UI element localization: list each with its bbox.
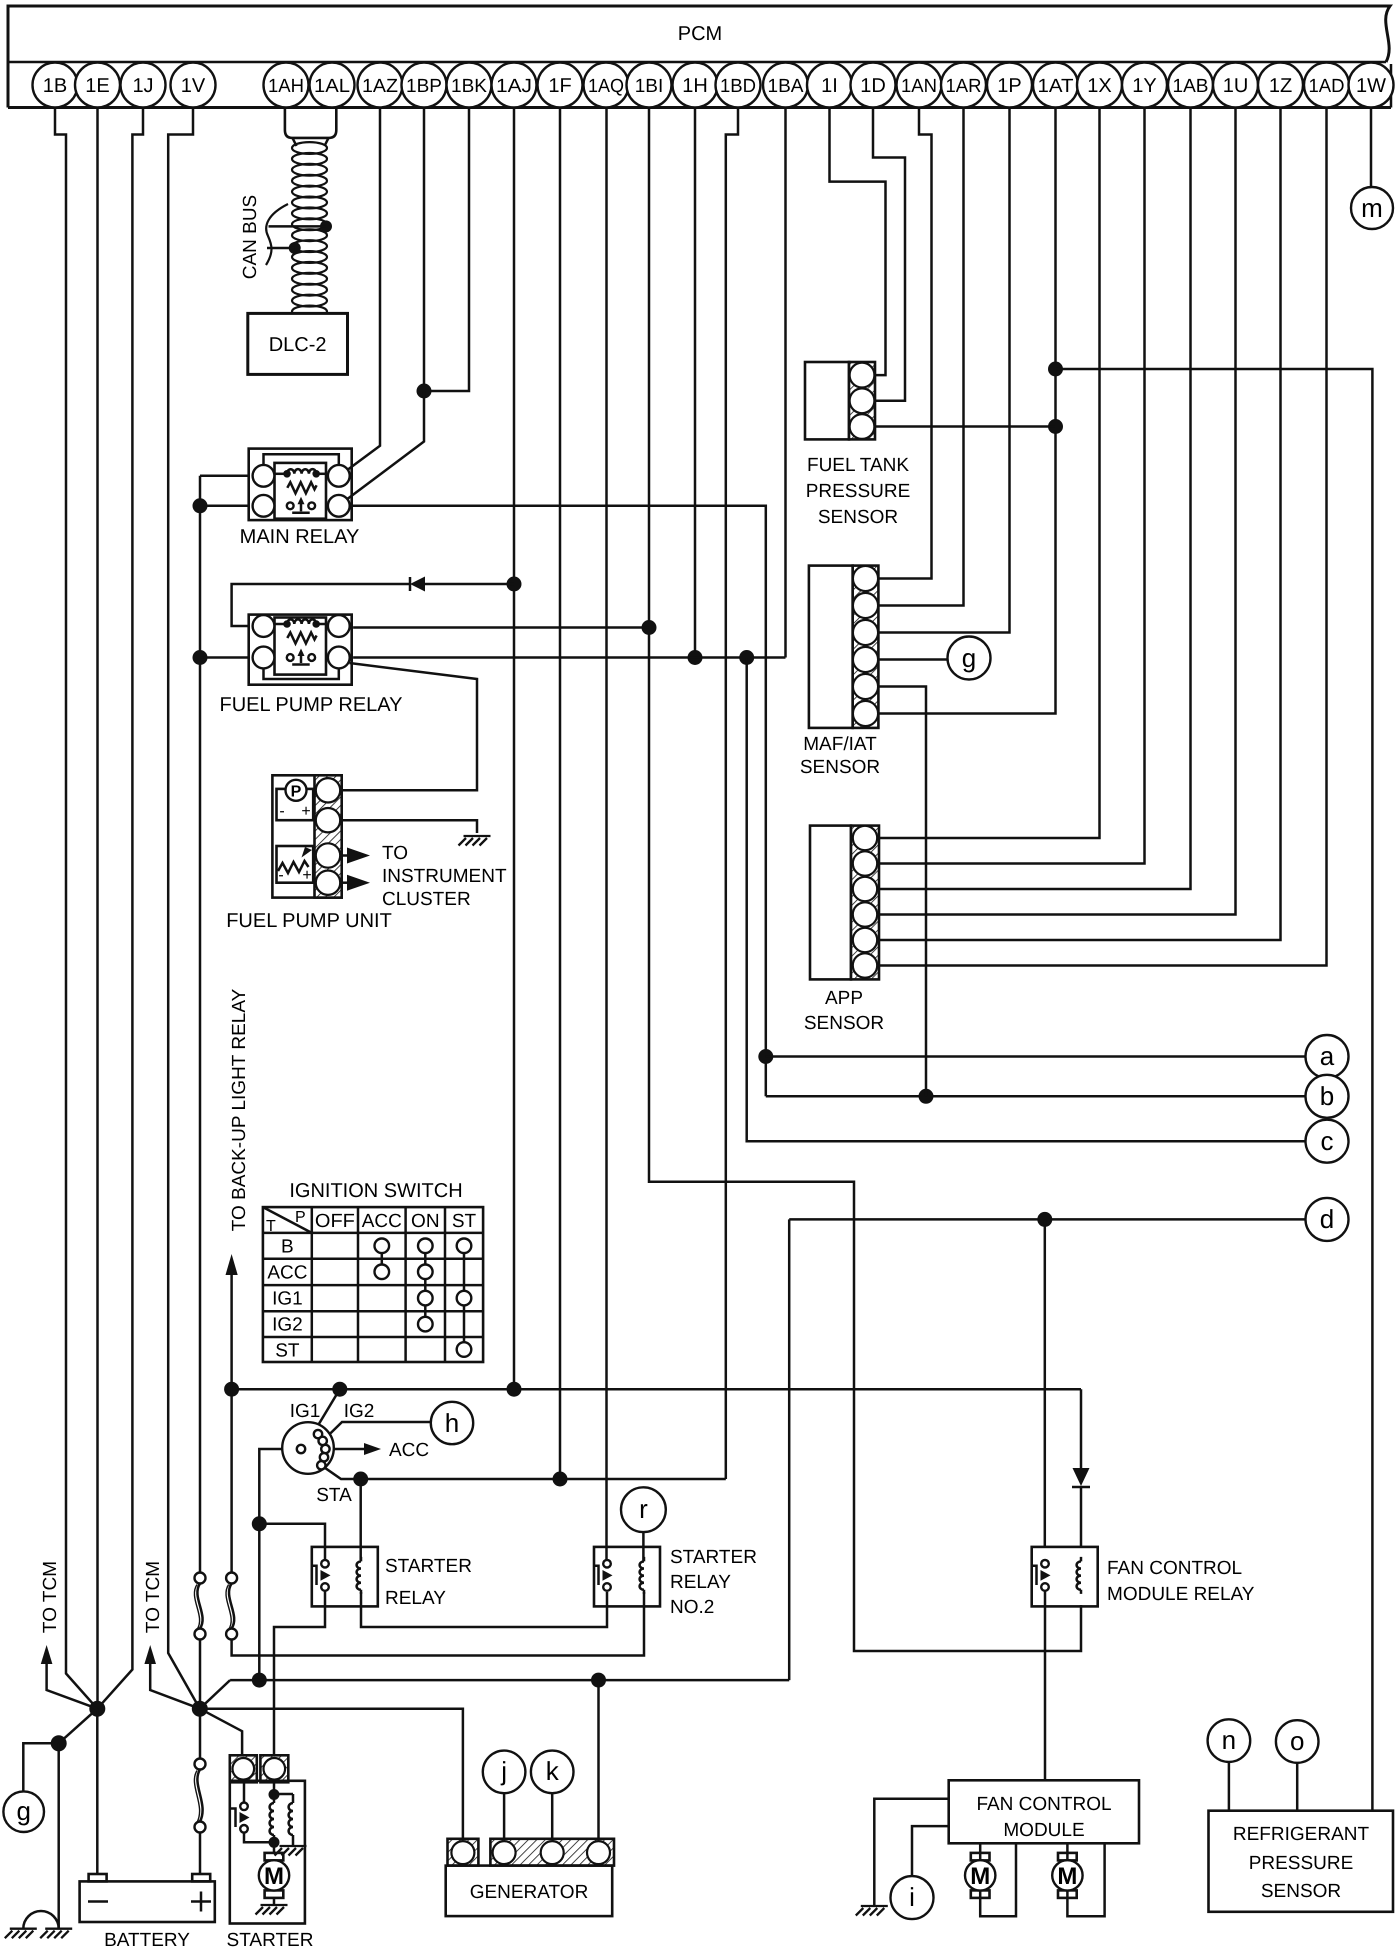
ignition switch rotor [282, 1422, 334, 1474]
junction generator feed [591, 1673, 606, 1688]
svg-text:IG2: IG2 [344, 1401, 375, 1422]
svg-text:SENSOR: SENSOR [818, 507, 898, 528]
svg-text:1I: 1I [821, 75, 838, 97]
IGNITION SWITCH table [263, 1207, 483, 1362]
PCM pin 1V [171, 63, 216, 108]
svg-text:RELAY: RELAY [670, 1572, 731, 1593]
junction IG1 / backup light relay [224, 1382, 239, 1397]
wire FAN CONTROL MODULE RELAY switch to module [1044, 1590, 1047, 1780]
wire 1F to STA bus [559, 108, 562, 1480]
junction main relay coil feed [193, 498, 208, 513]
svg-text:1X: 1X [1087, 75, 1111, 97]
fan motor 2 [1052, 1853, 1082, 1898]
svg-text:1Y: 1Y [1132, 75, 1156, 97]
svg-text:n: n [1222, 1725, 1236, 1755]
CAN BUS connector from 1AH/1AL [285, 108, 336, 138]
junction B (ground distribution) [51, 1735, 67, 1751]
junction STA [353, 1472, 368, 1487]
node b [1306, 1075, 1349, 1118]
svg-text:FUEL PUMP RELAY: FUEL PUMP RELAY [219, 694, 402, 716]
PCM pin 1AB [1168, 63, 1213, 108]
wire to back-up light relay (arrow) [230, 1274, 233, 1389]
diode D1 (fuel pump relay) [410, 577, 425, 592]
PCM pin 1X [1077, 63, 1122, 108]
PCM pin 1BK [447, 63, 492, 108]
junction C (battery positive) [192, 1701, 208, 1717]
svg-text:MODULE: MODULE [1003, 1820, 1084, 1841]
wire B to ground [57, 1743, 60, 1928]
svg-text:+: + [301, 803, 310, 820]
junction 1F / STA bus [553, 1472, 568, 1487]
svg-text:+: + [302, 867, 311, 884]
node o [1276, 1720, 1319, 1763]
wire MAIN RELAY lower-left pin [200, 505, 250, 508]
wire 1AJ (IG1 feed) [513, 108, 516, 1390]
ground jumper arc [23, 1911, 58, 1929]
svg-text:TO TCM: TO TCM [40, 1561, 61, 1633]
wire 1AB to APP pin 3 [879, 108, 1191, 890]
wire diode to FUEL PUMP RELAY coil [232, 584, 410, 626]
FUEL TANK PRESSURE SENSOR [805, 362, 875, 439]
svg-text:-: - [278, 867, 283, 884]
wire to STARTER RELAY switch [259, 1524, 325, 1560]
svg-text:1AN: 1AN [901, 76, 937, 97]
PCM pin 1F [538, 63, 583, 108]
svg-text:g: g [16, 1796, 30, 1826]
svg-text:IG2: IG2 [272, 1315, 303, 1336]
fusible link 3 [194, 1759, 205, 1833]
svg-text:MODULE RELAY: MODULE RELAY [1107, 1584, 1255, 1605]
CAN BUS bracket [266, 204, 288, 265]
wire node d bus [789, 1218, 1305, 1221]
wire d bus to battery feed [788, 1219, 791, 1680]
wire 1AN to MAF pin 1 [878, 108, 932, 579]
wire 1BI to FAN CONTROL MODULE RELAY coil [649, 108, 1081, 1652]
node i [891, 1876, 934, 1919]
svg-text:d: d [1320, 1204, 1334, 1234]
junction 1AJ / diode wire [507, 577, 522, 592]
node c [1306, 1120, 1349, 1163]
MAF/IAT SENSOR [809, 566, 879, 728]
node k [531, 1751, 574, 1794]
svg-text:MAIN RELAY: MAIN RELAY [240, 526, 360, 548]
junction 1BI / fuel pump relay coil wire [642, 620, 657, 635]
svg-text:a: a [1320, 1041, 1335, 1071]
svg-text:h: h [445, 1408, 459, 1438]
wire fan module to ground [874, 1799, 948, 1906]
wire STARTER RELAY switch to starter S [274, 1591, 325, 1757]
svg-text:CLUSTER: CLUSTER [382, 889, 471, 910]
junction 1AJ / IG1 bus [507, 1382, 522, 1397]
wire 1BK [424, 108, 469, 392]
wire node j to generator [503, 1793, 506, 1840]
svg-text:ST: ST [275, 1341, 300, 1362]
junction rotor common / battery bus [252, 1673, 267, 1688]
svg-text:ACC: ACC [389, 1440, 429, 1461]
wire fuel tank sensor pin 3 [875, 425, 1056, 428]
fan motor 1 [965, 1853, 995, 1898]
wire 1I to fuel tank sensor pin 1 [830, 108, 886, 376]
svg-text:INSTRUMENT: INSTRUMENT [382, 866, 507, 887]
wire node k to generator [551, 1793, 554, 1840]
PCM pin 1AQ [584, 63, 629, 108]
svg-text:j: j [500, 1756, 507, 1786]
node a [1306, 1035, 1349, 1078]
svg-text:1BA: 1BA [768, 76, 804, 97]
wire STARTER RELAY coil to NO.2 switch [361, 1592, 607, 1627]
wire IG2 feed down (x=232) [232, 1389, 644, 1655]
wire 1AR to MAF pin 2 [878, 108, 964, 606]
fusible link 2 [226, 1573, 237, 1640]
junction 1AT / fuel tank sensor pin 3 [1048, 419, 1063, 434]
svg-text:M: M [264, 1863, 284, 1890]
GENERATOR [446, 1839, 614, 1916]
node r [621, 1487, 666, 1532]
wire 1B to junction A [55, 108, 97, 1709]
svg-text:STARTER: STARTER [385, 1556, 472, 1577]
svg-text:1P: 1P [997, 75, 1021, 97]
diode D2 (fan control module relay) [1072, 1468, 1090, 1487]
svg-text:g: g [962, 643, 976, 673]
wire A to B [59, 1709, 98, 1744]
wire ignition lever to IG1 [305, 1389, 340, 1447]
PCM pin 1Z [1258, 63, 1303, 108]
svg-text:1H: 1H [682, 75, 708, 97]
wire STA to STARTER RELAY coil [359, 1479, 362, 1560]
junction A (battery negative) [89, 1701, 105, 1717]
svg-text:ACC: ACC [267, 1263, 307, 1284]
wire 1J to junction A [97, 108, 143, 1709]
wire IG1 bus to fan relay diode [1080, 1389, 1083, 1468]
svg-text:1AT: 1AT [1038, 76, 1074, 97]
svg-text:1BD: 1BD [720, 76, 756, 97]
PCM pin 1BA [763, 63, 808, 108]
svg-text:1BP: 1BP [406, 76, 442, 97]
svg-text:RELAY: RELAY [385, 1588, 446, 1609]
PCM pin 1AN [897, 63, 942, 108]
svg-text:-: - [279, 803, 284, 820]
wire FUEL PUMP RELAY coil to 1BI [353, 626, 649, 629]
svg-text:IG1: IG1 [290, 1401, 321, 1422]
svg-text:1Z: 1Z [1269, 75, 1292, 97]
APP SENSOR [810, 826, 879, 980]
relay STARTER RELAY NO.2 [594, 1547, 661, 1607]
wire 1Z to APP pin 5 [879, 108, 1281, 941]
PCM pin 1W [1349, 63, 1394, 108]
ground (starter solenoid) [275, 1846, 307, 1856]
wire to node a [766, 1055, 1306, 1058]
junction 1BP/1BK [417, 384, 432, 399]
wire FUEL PUMP RELAY lower-left pin [200, 656, 250, 659]
svg-text:SENSOR: SENSOR [800, 757, 880, 778]
wire 1AZ to MAIN RELAY coil [348, 108, 380, 470]
wire 1AQ to STARTER RELAY NO.2 switch [605, 108, 608, 1561]
wire node n to refrigerant sensor [1228, 1762, 1231, 1811]
wire 1BA to relay output bus [784, 108, 787, 658]
wire ACC contact with arrow [325, 1443, 381, 1455]
svg-text:1W: 1W [1356, 75, 1386, 97]
wire STARTER RELAY NO.2 coil bottom [643, 1592, 646, 1605]
wire TO TCM 1 [47, 1663, 98, 1709]
wire STA contact to STA bus [321, 1465, 360, 1479]
svg-text:1E: 1E [85, 75, 109, 97]
wire 1X to APP pin 1 [879, 108, 1100, 839]
ground (fuel pump unit) [459, 836, 491, 846]
svg-text:ACC: ACC [362, 1211, 402, 1232]
svg-text:1AH: 1AH [268, 76, 304, 97]
wire 1AT branch to refrigerant pressure sensor [1056, 369, 1373, 1811]
svg-text:1BI: 1BI [635, 76, 664, 97]
svg-text:i: i [909, 1882, 915, 1912]
wire 1W to node m [1370, 108, 1373, 188]
svg-text:P: P [295, 1209, 306, 1226]
svg-text:k: k [546, 1756, 560, 1786]
node j [483, 1751, 526, 1794]
svg-text:1V: 1V [181, 75, 206, 97]
svg-text:STA: STA [316, 1485, 352, 1506]
svg-text:FAN CONTROL: FAN CONTROL [976, 1794, 1111, 1815]
svg-text:BATTERY: BATTERY [104, 1930, 190, 1950]
wire fan motor 1 loop [980, 1843, 1016, 1916]
junction rotor common / starter relay switch [252, 1516, 267, 1531]
CAN BUS twisted pair [292, 142, 327, 154]
PCM pin 1AT [1033, 63, 1078, 108]
wire fan motor 2 loop [1067, 1843, 1104, 1916]
svg-text:m: m [1361, 193, 1383, 223]
svg-text:1AJ: 1AJ [496, 76, 532, 97]
PCM pin 1E [75, 63, 120, 108]
svg-text:IG1: IG1 [272, 1289, 303, 1310]
wire d bus to FAN CONTROL MODULE RELAY switch [1044, 1219, 1047, 1548]
wire 1D to fuel tank sensor pin 2 [873, 108, 905, 401]
STARTER [230, 1755, 307, 1923]
relay STARTER RELAY [312, 1547, 378, 1607]
svg-text:TO: TO [382, 843, 408, 864]
junction d / fan relay feed [1037, 1212, 1052, 1227]
wire MAIN RELAY switch output to a/b [352, 506, 766, 1097]
svg-text:SENSOR: SENSOR [804, 1013, 884, 1034]
svg-text:TO BACK-UP LIGHT RELAY: TO BACK-UP LIGHT RELAY [229, 988, 250, 1231]
svg-text:1AD: 1AD [1309, 76, 1345, 97]
ground (starter motor) [256, 1905, 288, 1915]
wire FUEL PUMP RELAY to FUEL PUMP UNIT pin 1 [340, 663, 477, 790]
PCM pin 1I [807, 63, 852, 108]
wire node o to refrigerant sensor [1296, 1763, 1299, 1811]
wire FUEL PUMP RELAY switch output bus [353, 656, 785, 659]
DLC-2 [248, 313, 348, 374]
svg-text:T: T [266, 1218, 276, 1235]
node m [1351, 187, 1393, 229]
wire to node c [747, 658, 1306, 1142]
svg-text:OFF: OFF [315, 1211, 355, 1232]
wire battery bus horizontal (y=1680) [230, 1679, 789, 1682]
wire 1AT sensor ground bus [878, 108, 1056, 714]
svg-text:NO.2: NO.2 [670, 1597, 714, 1618]
svg-text:PRESSURE: PRESSURE [806, 481, 911, 502]
svg-text:STARTER: STARTER [227, 1930, 314, 1950]
svg-text:1AL: 1AL [314, 76, 350, 97]
wire diode to fan relay coil [1080, 1487, 1083, 1548]
junction 1AT / right branch [1048, 362, 1063, 377]
wire FUEL PUMP UNIT pin 2 to ground [340, 820, 477, 833]
CAN BUS taps [320, 220, 332, 232]
PCM pin 1AH [264, 63, 309, 108]
svg-text:r: r [639, 1494, 648, 1524]
svg-text:MAF/IAT: MAF/IAT [803, 734, 877, 755]
wire generator pin 4 [597, 1680, 600, 1840]
svg-text:1J: 1J [132, 75, 153, 97]
node h [431, 1402, 473, 1444]
PCM pin 1AD [1304, 63, 1349, 108]
svg-text:PRESSURE: PRESSURE [1249, 1853, 1354, 1874]
svg-text:IGNITION SWITCH: IGNITION SWITCH [289, 1180, 462, 1202]
svg-text:SENSOR: SENSOR [1261, 1881, 1341, 1902]
svg-text:1BK: 1BK [451, 76, 487, 97]
wire IG2 contact to node h [323, 1422, 431, 1441]
PCM pin 1U [1213, 63, 1258, 108]
junction MAF pin5 / b wire [919, 1089, 934, 1104]
svg-text:GENERATOR: GENERATOR [470, 1882, 589, 1903]
svg-text:APP: APP [825, 988, 863, 1009]
svg-text:ON: ON [411, 1211, 440, 1232]
wire junction to MAIN RELAY switch pin [348, 391, 424, 499]
svg-text:TO TCM: TO TCM [143, 1561, 164, 1633]
PCM pin 1BD [716, 63, 761, 108]
junction 1H / relay output bus [688, 650, 703, 665]
svg-text:o: o [1290, 1726, 1304, 1756]
svg-text:FUEL TANK: FUEL TANK [807, 455, 909, 476]
fusible link 1 [194, 1573, 205, 1640]
node g (ground ref) [3, 1791, 44, 1832]
wire 1H to relay output bus [694, 108, 697, 658]
wire IG1 bus [232, 1388, 1081, 1391]
wire 1U to APP pin 4 [879, 108, 1236, 915]
svg-text:DLC-2: DLC-2 [269, 334, 327, 356]
wire battery hot vertical (x=200) [199, 476, 202, 1874]
svg-text:c: c [1321, 1126, 1334, 1156]
svg-text:ST: ST [452, 1211, 477, 1232]
FUEL PUMP UNIT [272, 775, 341, 897]
svg-text:M: M [1057, 1863, 1077, 1890]
PCM pin 1D [851, 63, 896, 108]
svg-text:b: b [1320, 1081, 1334, 1111]
PCM pin 1BP [402, 63, 447, 108]
wire MAIN RELAY switch input [200, 475, 250, 478]
PCM pin 1AR [941, 63, 986, 108]
junction fuel pump relay feed [193, 650, 208, 665]
wire MAF pin 5 to b wire [878, 687, 926, 1097]
wire STA bus [361, 1478, 726, 1481]
arrows to instrument cluster [340, 848, 370, 864]
FAN CONTROL MODULE [949, 1780, 1139, 1843]
svg-text:1AB: 1AB [1173, 76, 1209, 97]
svg-text:1AQ: 1AQ [588, 76, 624, 97]
relay MAIN RELAY [249, 449, 352, 520]
svg-text:FUEL PUMP UNIT: FUEL PUMP UNIT [226, 910, 392, 932]
wire C to starter B terminal [200, 1709, 242, 1757]
PCM pin 1J [121, 63, 166, 108]
svg-text:P: P [291, 783, 302, 800]
relay FAN CONTROL MODULE RELAY [1032, 1547, 1098, 1607]
svg-text:PCM: PCM [678, 23, 722, 45]
junction a [758, 1049, 773, 1064]
wire battery bus diagonal to C [200, 1680, 230, 1709]
PCM box [8, 6, 1391, 108]
svg-text:1B: 1B [43, 75, 67, 97]
svg-text:1D: 1D [860, 75, 886, 97]
svg-text:1AZ: 1AZ [362, 76, 398, 97]
ground (right) [40, 1929, 72, 1939]
BATTERY [80, 1874, 215, 1922]
wire generator pin 1 feed [200, 1709, 463, 1840]
PCM pin 1B [33, 63, 78, 108]
PCM pin 1BI [627, 63, 672, 108]
node n [1208, 1719, 1251, 1762]
wire 1V to junction C [168, 108, 200, 1709]
svg-text:1AR: 1AR [946, 76, 982, 97]
PCM pin 1AJ [492, 63, 537, 108]
wire node r to STARTER RELAY NO.2 coil [642, 1532, 645, 1561]
svg-text:CAN BUS: CAN BUS [240, 195, 261, 279]
wire A to battery negative post [96, 1709, 99, 1874]
PCM pin 1H [673, 63, 718, 108]
wire 1AD to APP pin 6 [879, 108, 1327, 966]
node d [1306, 1198, 1349, 1241]
wire fan module to node i [912, 1826, 949, 1876]
svg-text:1U: 1U [1223, 75, 1249, 97]
junction c branch [739, 650, 754, 665]
PCM pin 1Y [1122, 63, 1167, 108]
wire 1P to MAF pin 3 [878, 108, 1010, 633]
ground (left) [5, 1929, 37, 1939]
svg-text:M: M [970, 1863, 990, 1890]
wire B to node g [23, 1743, 58, 1791]
svg-text:1F: 1F [548, 75, 571, 97]
wire to node b [766, 1095, 1306, 1098]
junction IG1 / ignition switch lever [332, 1382, 347, 1397]
wire 1E to junction A [96, 108, 99, 1709]
PCM pin 1AZ [358, 63, 403, 108]
wire TO TCM 2 [150, 1663, 200, 1709]
wire 1Y to APP pin 2 [879, 108, 1145, 864]
wire diode to 1AJ [424, 583, 514, 586]
PCM pin 1P [987, 63, 1032, 108]
wire 1BD to STA bus [726, 108, 738, 1480]
ground (fan module) [856, 1906, 888, 1916]
wire ignition rotor common [259, 1449, 298, 1680]
node g (MAF) [878, 637, 991, 680]
svg-text:B: B [281, 1237, 294, 1258]
PCM pin 1AL [310, 63, 355, 108]
svg-text:STARTER: STARTER [670, 1547, 757, 1568]
REFRIGERANT PRESSURE SENSOR [1209, 1811, 1394, 1912]
wire 1BP [423, 108, 426, 392]
relay FUEL PUMP RELAY [249, 615, 352, 685]
svg-text:REFRIGERANT: REFRIGERANT [1233, 1824, 1370, 1845]
svg-text:FAN CONTROL: FAN CONTROL [1107, 1558, 1242, 1579]
